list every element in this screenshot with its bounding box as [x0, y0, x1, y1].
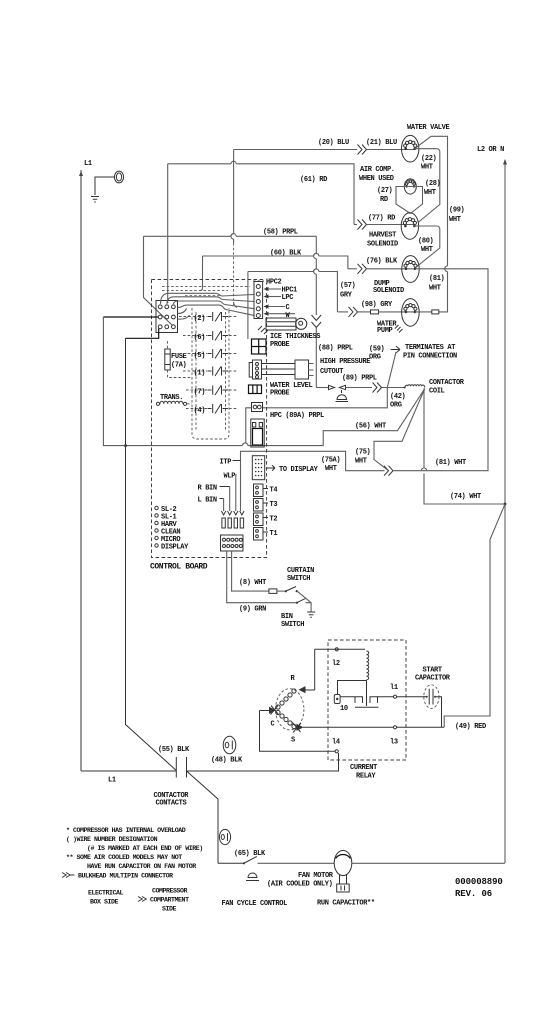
connector ITP to display	[252, 456, 318, 480]
svg-text:CONTACTOR: CONTACTOR	[429, 379, 465, 387]
svg-text:(27): (27)	[377, 187, 393, 195]
svg-text:(1): (1)	[194, 370, 206, 378]
svg-text:SWITCH: SWITCH	[281, 621, 304, 629]
svg-text:CUTOUT: CUTOUT	[320, 368, 343, 376]
svg-text:(58) PRPL: (58) PRPL	[263, 229, 298, 237]
hop of (74) over (81)	[421, 468, 426, 471]
svg-text:TRANS.: TRANS.	[160, 394, 183, 402]
svg-text:(76) BLK: (76) BLK	[366, 257, 398, 265]
svg-text:C: C	[271, 721, 275, 729]
wire (88) PRPL	[316, 328, 353, 388]
wire (22) WHT valve to harvest	[415, 149, 440, 222]
svg-text:WLP: WLP	[224, 473, 236, 481]
svg-text:(21) BLU: (21) BLU	[366, 139, 397, 147]
svg-text:ITP: ITP	[220, 459, 232, 467]
board relay contact column	[192, 308, 229, 439]
pin label ITP	[220, 459, 241, 467]
wire (48) BLK	[187, 753, 339, 771]
svg-text:WHT: WHT	[449, 216, 461, 224]
fuse F1 (7A)	[165, 341, 192, 378]
svg-text:CAPACITOR: CAPACITOR	[415, 675, 451, 683]
svg-text:(75): (75)	[355, 449, 371, 457]
svg-text:ORG: ORG	[369, 354, 381, 362]
svg-text:( )WIRE NUMBER DESIGNATION: ( )WIRE NUMBER DESIGNATION	[66, 836, 158, 843]
relay terminal 3	[390, 726, 398, 747]
svg-text:(88) PRPL: (88) PRPL	[318, 345, 353, 353]
svg-text:l3: l3	[390, 739, 398, 747]
svg-text:L1: L1	[108, 777, 116, 785]
wire (89A) PRPL	[263, 388, 388, 421]
svg-text:(28): (28)	[425, 180, 441, 188]
window connector box	[252, 339, 267, 354]
wire (9) GRN	[227, 551, 296, 614]
three-cell connector	[249, 385, 262, 394]
board edge connector	[221, 535, 244, 551]
solenoid water valve	[402, 124, 450, 162]
svg-text:(98) GRY: (98) GRY	[361, 301, 393, 309]
fan cycle control	[218, 850, 335, 908]
pin HPC1	[264, 287, 298, 295]
svg-text:(6): (6)	[194, 334, 206, 342]
svg-text:T1: T1	[270, 530, 278, 538]
svg-text:ELECTRICAL: ELECTRICAL	[88, 890, 124, 897]
pin LPC	[264, 294, 294, 302]
run capacitor	[317, 875, 375, 908]
svg-text:(5): (5)	[194, 352, 206, 360]
node L1	[79, 160, 92, 771]
svg-text:SOLENOID: SOLENOID	[373, 287, 404, 295]
svg-text:COMPRESSOR: COMPRESSOR	[152, 888, 188, 895]
relay terminal 1	[390, 684, 423, 698]
svg-text:S: S	[291, 737, 295, 745]
wire (8) WHT	[232, 551, 269, 591]
wire (61) RD	[168, 161, 354, 224]
curtain switch	[269, 567, 314, 603]
wire (77) RD	[354, 215, 414, 225]
contactor coil	[405, 379, 465, 396]
svg-text:T3: T3	[270, 501, 278, 509]
svg-text:LPC: LPC	[282, 294, 294, 302]
status LEDs	[155, 506, 189, 552]
wire (75A) WHT	[241, 451, 346, 511]
wire pump right connector	[415, 310, 439, 314]
wire S arrow	[297, 724, 304, 731]
relay terminal 2	[315, 648, 365, 668]
pin C	[264, 304, 290, 312]
wire (57) GRY	[248, 269, 356, 339]
svg-text:CURTAIN: CURTAIN	[287, 567, 314, 575]
svg-text:CONTROL BOARD: CONTROL BOARD	[150, 563, 208, 572]
svg-text:BIN: BIN	[281, 613, 293, 621]
wire (81) WHT	[346, 269, 488, 471]
svg-text:L1: L1	[84, 160, 92, 168]
high pressure cutout	[316, 358, 377, 402]
svg-text:(4): (4)	[194, 407, 206, 415]
svg-text:(74) WHT: (74) WHT	[450, 493, 481, 501]
svg-text:HIGH PRESSURE: HIGH PRESSURE	[320, 358, 370, 366]
wire L1 feed to block	[103, 316, 158, 318]
svg-text:(81) WHT: (81) WHT	[435, 459, 466, 467]
bulkhead chevrons on (58)/(88) vertical	[312, 315, 322, 328]
connector block J1	[156, 301, 178, 333]
svg-text:l1: l1	[390, 684, 398, 692]
control board outline	[150, 280, 267, 572]
svg-text:10: 10	[340, 705, 348, 713]
pin label WLP	[224, 473, 237, 512]
svg-text:(80): (80)	[418, 238, 434, 246]
wire (59) ORG terminates annotation	[369, 344, 457, 388]
wire bundle block to HPC2	[161, 288, 255, 319]
wire (20) BLU	[234, 139, 414, 150]
svg-text:SWITCH: SWITCH	[287, 575, 310, 583]
relay coil	[367, 651, 369, 680]
svg-text:WHT: WHT	[421, 246, 433, 254]
svg-text:CONTACTS: CONTACTS	[156, 800, 187, 808]
svg-text:(99): (99)	[449, 207, 465, 215]
bin switch	[281, 599, 311, 629]
wire L1 to contactor	[81, 771, 176, 785]
svg-text:HPC2: HPC2	[266, 279, 282, 287]
svg-text:(57): (57)	[340, 282, 356, 290]
svg-text:CURRENT: CURRENT	[350, 764, 377, 772]
svg-text:COMPARTMENT: COMPARTMENT	[150, 897, 189, 904]
wire (55) BLK vertical	[124, 338, 190, 770]
node L2 OR N	[477, 146, 507, 863]
svg-text:GRY: GRY	[340, 292, 353, 300]
contactor contacts	[154, 757, 190, 808]
svg-text:(8) WHT: (8) WHT	[239, 579, 266, 587]
svg-text:L BIN: L BIN	[198, 497, 217, 505]
svg-text:TERMINATES AT: TERMINATES AT	[405, 344, 455, 352]
wire (42) ORG	[382, 387, 406, 410]
wire to fan branch	[187, 771, 219, 863]
svg-text:(42): (42)	[390, 393, 406, 401]
connector HPC2	[253, 279, 282, 319]
wires air comp to harvest	[396, 180, 441, 214]
svg-text:PROBE: PROBE	[270, 341, 289, 349]
svg-text:BULKHEAD MULTIPIN CONNECTOR: BULKHEAD MULTIPIN CONNECTOR	[78, 873, 173, 880]
compressor motor	[271, 675, 304, 745]
svg-text:ICE THICKNESS: ICE THICKNESS	[270, 333, 320, 341]
wire (56) WHT	[126, 389, 425, 446]
svg-text:L2 OR N: L2 OR N	[477, 146, 504, 154]
relay contact (5)	[194, 349, 239, 360]
svg-text:REV. 06: REV. 06	[455, 889, 492, 899]
board pins	[221, 511, 244, 528]
part number	[455, 877, 503, 899]
svg-text:(75A): (75A)	[321, 457, 340, 465]
wire 56 left vertical	[103, 317, 125, 446]
svg-text:(2): (2)	[194, 315, 206, 323]
svg-text:R BIN: R BIN	[198, 485, 217, 493]
wire C to terminal 4	[260, 711, 336, 752]
svg-text:(55) BLK: (55) BLK	[158, 746, 190, 754]
wire block to fuse/55	[126, 329, 159, 339]
ground bin/curtain	[307, 612, 315, 617]
svg-text:WHT: WHT	[429, 285, 441, 293]
solenoid harvest	[367, 213, 419, 249]
relay contact (6)	[194, 331, 239, 342]
svg-text:SOLENOID: SOLENOID	[367, 241, 398, 249]
svg-text:SIDE: SIDE	[162, 906, 177, 913]
start capacitor	[415, 667, 451, 728]
terminal T2	[254, 513, 278, 526]
svg-text:RUN CAPACITOR**: RUN CAPACITOR**	[317, 900, 375, 908]
wire (2) from board to (20) BLU	[231, 150, 234, 308]
svg-text:(65) BLK: (65) BLK	[234, 850, 266, 858]
bulkhead connector on (75)/(81)	[384, 466, 393, 476]
dashed board wires	[162, 286, 250, 295]
svg-text:FAN CYCLE CONTROL: FAN CYCLE CONTROL	[222, 900, 288, 908]
svg-text:PIN CONNECTION: PIN CONNECTION	[403, 353, 457, 361]
svg-text:HARVEST: HARVEST	[369, 232, 396, 240]
solenoid air compressor	[359, 166, 416, 204]
wire (58) PRPL	[144, 229, 317, 326]
pin W	[264, 312, 296, 320]
svg-text:WHT: WHT	[421, 164, 433, 172]
wire R to relay	[314, 649, 316, 690]
svg-text:WATER VALVE: WATER VALVE	[407, 124, 450, 132]
svg-text:RELAY: RELAY	[356, 773, 376, 781]
svg-text:** SOME AIR COOLED MODELS MAY: ** SOME AIR COOLED MODELS MAY NOT	[66, 854, 182, 861]
relay armature	[334, 681, 393, 714]
svg-text:PUMP: PUMP	[377, 327, 393, 335]
svg-text:COIL: COIL	[429, 388, 445, 396]
pin label L BIN	[198, 497, 224, 512]
overload marker (65)	[219, 829, 230, 844]
wire (49) RED upper	[444, 504, 505, 727]
svg-text:(89) PRPL: (89) PRPL	[342, 375, 377, 383]
wire (60) BLK	[203, 250, 348, 289]
relay terminal 4	[332, 739, 340, 753]
svg-text:T2: T2	[270, 516, 278, 524]
svg-text:(77) RD: (77) RD	[368, 215, 395, 223]
svg-text:ORG: ORG	[390, 402, 402, 410]
svg-text:PROBE: PROBE	[270, 390, 289, 398]
svg-text:AIR COMP.: AIR COMP.	[360, 166, 395, 174]
svg-text:FUSE: FUSE	[171, 353, 187, 361]
svg-text:(59): (59)	[369, 346, 385, 354]
svg-text:(56) WHT: (56) WHT	[355, 423, 386, 431]
transformer T1	[156, 394, 192, 405]
current relay box	[328, 640, 406, 781]
HPC connector (oo)	[252, 403, 263, 412]
relay contact (4)	[194, 404, 239, 415]
svg-text:(7A): (7A)	[171, 362, 187, 370]
indicator lamp	[95, 171, 124, 195]
svg-text:(9) GRN: (9) GRN	[239, 606, 266, 614]
svg-text:(# IS MARKED AT EACH END OF WI: (# IS MARKED AT EACH END OF WIRE)	[87, 845, 203, 852]
svg-text:l4: l4	[332, 739, 340, 747]
terminal T4	[254, 484, 278, 497]
svg-text:WHT: WHT	[355, 458, 367, 466]
solenoid water pump	[377, 299, 419, 335]
svg-text:T4: T4	[270, 487, 278, 495]
relay contact (1)	[194, 367, 239, 378]
svg-text:(48) BLK: (48) BLK	[211, 757, 243, 765]
svg-text:(49) RED: (49) RED	[455, 723, 486, 731]
solenoid dump	[373, 256, 419, 295]
bulkhead connector on (76) BLK	[358, 264, 367, 274]
svg-text:(20) BLU: (20) BLU	[318, 139, 349, 147]
ground	[91, 197, 99, 203]
relay component on board	[251, 419, 264, 447]
svg-text:(22): (22)	[421, 155, 437, 163]
svg-text:WHT: WHT	[325, 465, 337, 473]
relay contact (7)	[194, 386, 239, 397]
svg-text:RD: RD	[380, 196, 388, 204]
relay contact (2)	[194, 312, 239, 323]
svg-text:(81): (81)	[429, 275, 445, 283]
wire (98) GRY	[337, 301, 415, 314]
svg-text:FAN MOTOR: FAN MOTOR	[298, 872, 334, 880]
bulkhead connector on (89)/(42)	[373, 383, 382, 393]
dashed stubs contact rows to block	[179, 317, 207, 409]
svg-text:(61) RD: (61) RD	[300, 176, 327, 184]
wire (99) WHT	[415, 136, 465, 312]
bulkhead connector on (98) GRY	[349, 307, 358, 317]
svg-text:(7): (7)	[194, 389, 206, 397]
svg-text:(AIR COOLED ONLY): (AIR COOLED ONLY)	[267, 881, 333, 889]
svg-text:C: C	[286, 304, 290, 312]
svg-text:DISPLAY: DISPLAY	[161, 544, 189, 552]
fan motor	[267, 850, 505, 888]
bulkhead connector on (77) RD	[358, 220, 367, 230]
wire (76) BLK	[348, 257, 415, 269]
bulkhead connector on (20)/(21)	[358, 145, 367, 155]
wire (74) WHT	[424, 389, 506, 506]
svg-text:HAVE RUN CAPACITOR ON FAN MOTO: HAVE RUN CAPACITOR ON FAN MOTOR	[87, 863, 196, 870]
svg-text:* COMPRESSOR HAS INTERNAL OVE: * COMPRESSOR HAS INTERNAL OVERLOAD	[66, 827, 186, 834]
terminal T1	[254, 528, 278, 541]
wire 56 stub to relay box	[246, 408, 252, 443]
svg-text:HPC (89A) PRPL: HPC (89A) PRPL	[270, 412, 324, 420]
wire (61)-to-board vertical	[167, 164, 169, 303]
svg-text:START: START	[423, 667, 442, 675]
overload marker (48)	[223, 736, 236, 754]
svg-text:WHT: WHT	[424, 189, 436, 197]
svg-text:l2: l2	[332, 660, 340, 668]
wire C arrow	[260, 710, 270, 712]
svg-text:BOX SIDE: BOX SIDE	[90, 899, 119, 906]
svg-text:000008890: 000008890	[455, 877, 503, 887]
pin label R BIN	[198, 485, 230, 512]
notes	[62, 827, 203, 913]
ice thickness probe	[258, 318, 320, 349]
wire S to terminal 3 and (49) RED	[303, 723, 486, 731]
svg-text:TO DISPLAY: TO DISPLAY	[279, 466, 319, 474]
water level probe	[249, 360, 313, 398]
terminal T3	[254, 499, 278, 512]
wire (75) WHT	[355, 389, 425, 471]
svg-text:WHEN USED: WHEN USED	[359, 175, 394, 183]
wire (80) WHT harvest to dump	[414, 226, 439, 268]
